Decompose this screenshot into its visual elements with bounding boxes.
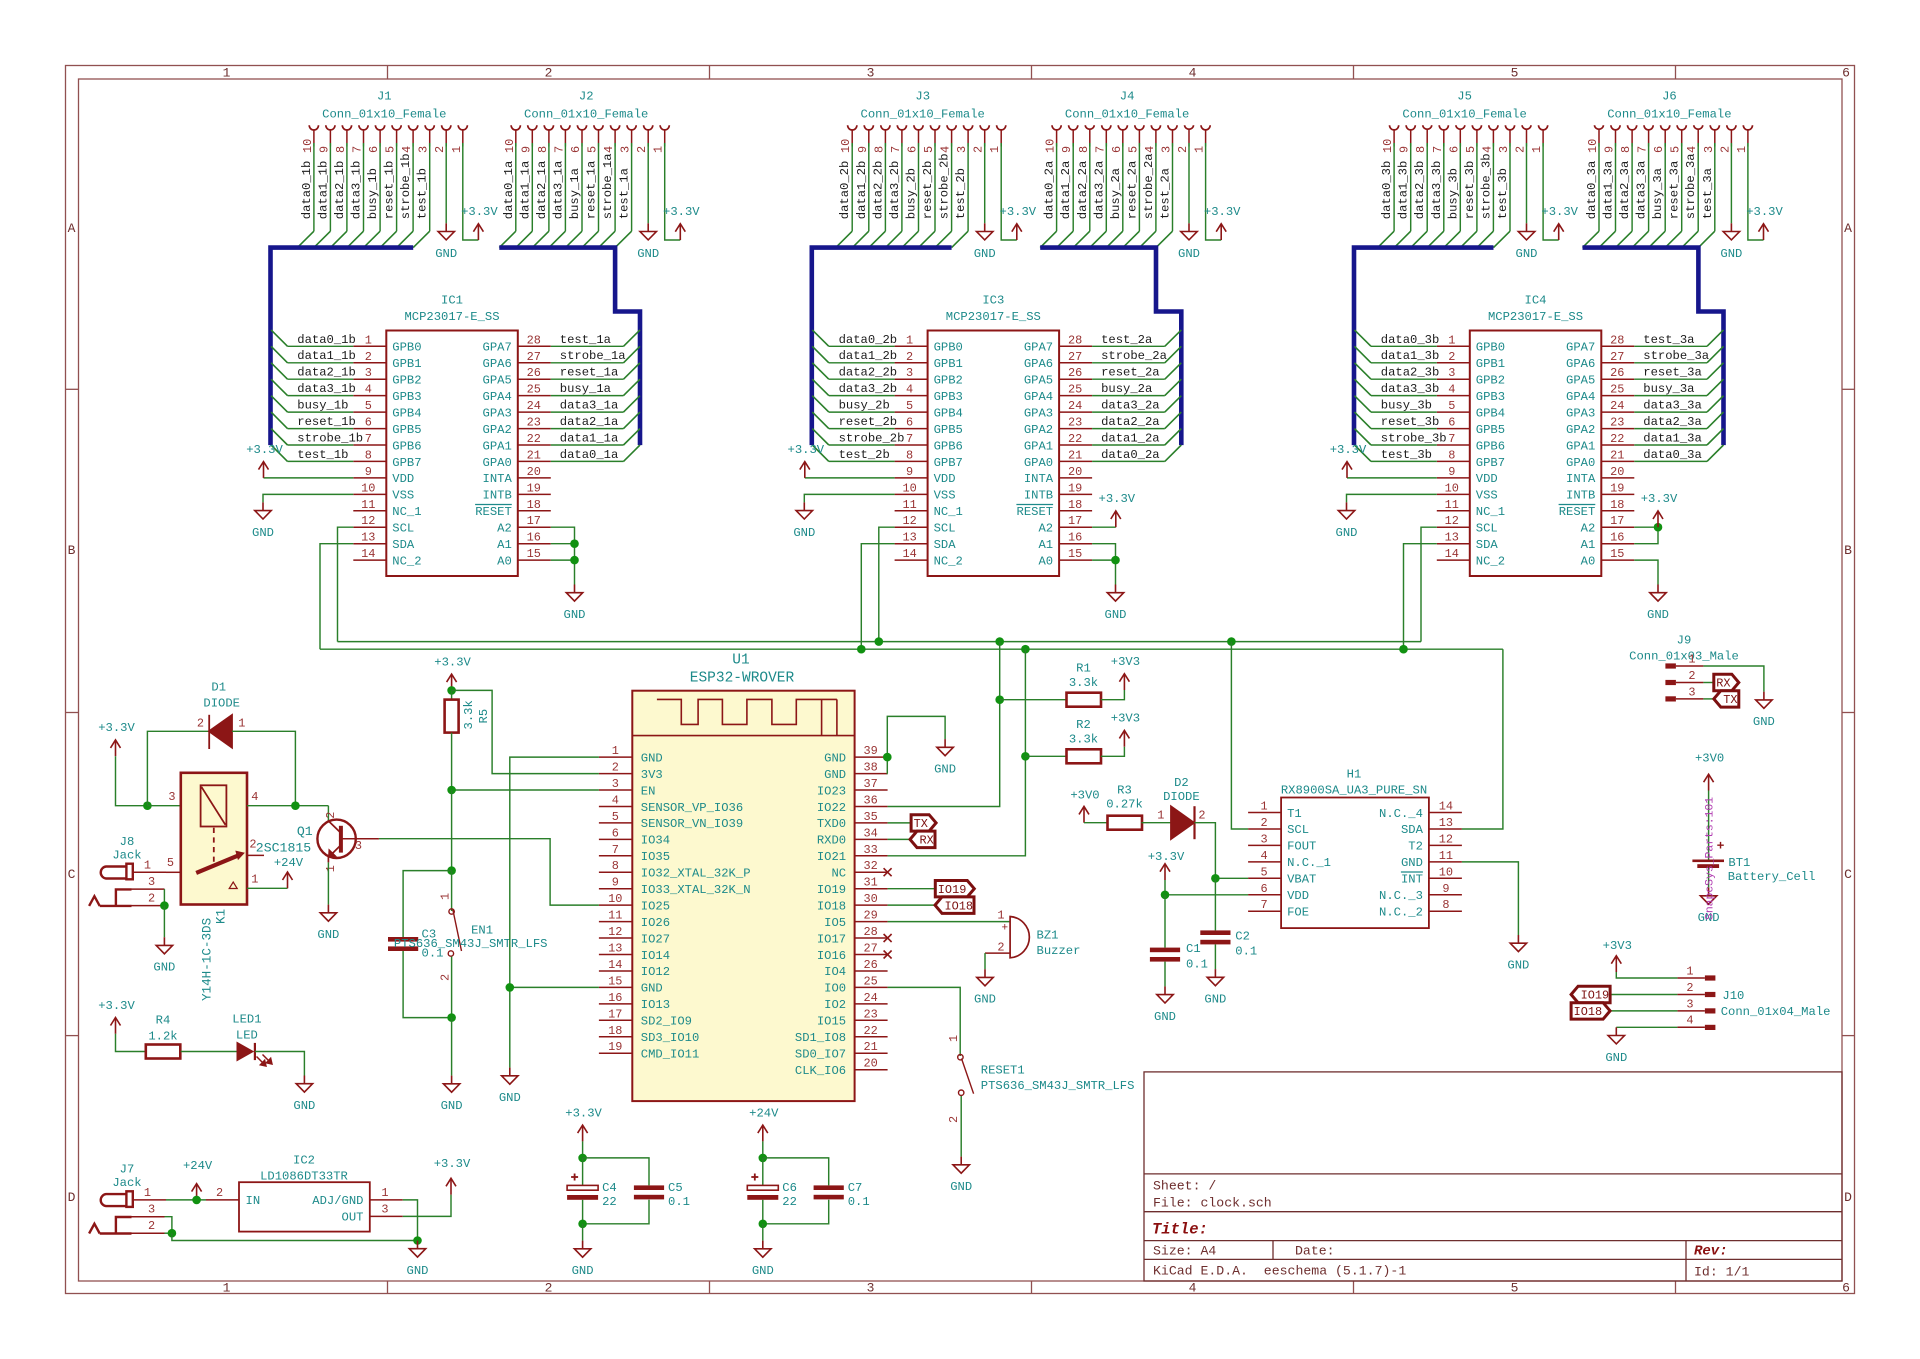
svg-text:DIODE: DIODE xyxy=(1163,790,1200,804)
wire net test_3a to IC4 pin 28 xyxy=(1634,345,1707,347)
svg-text:0.1: 0.1 xyxy=(668,1195,690,1209)
svg-text:data3_3b: data3_3b xyxy=(1430,161,1444,220)
wire J1 pin 1 to +3.3V xyxy=(463,147,479,241)
wire net reset_2a from J4 pin 5 xyxy=(1138,147,1140,232)
junction SCL at IC3 xyxy=(875,637,884,646)
svg-text:RX8900SA_UA3_PURE_SN: RX8900SA_UA3_PURE_SN xyxy=(1281,784,1427,798)
ground at IC4 A0 xyxy=(1657,585,1659,593)
svg-text:7: 7 xyxy=(612,843,619,857)
wire +24V to C6 C7 xyxy=(762,1141,764,1158)
junction SDA at IC3 xyxy=(857,645,866,654)
svg-text:0.1: 0.1 xyxy=(1186,958,1208,972)
svg-text:+3.3V: +3.3V xyxy=(246,443,283,457)
svg-text:data1_2a: data1_2a xyxy=(1101,432,1160,446)
svg-text:12: 12 xyxy=(608,925,622,939)
svg-text:11: 11 xyxy=(902,498,916,512)
svg-text:busy_1a: busy_1a xyxy=(568,168,582,219)
bus J2 to IC1 right xyxy=(499,248,640,446)
svg-text:+3.3V: +3.3V xyxy=(788,443,825,457)
wire C3 bottom to EN1 bottom node xyxy=(403,951,452,1018)
svg-text:Jack: Jack xyxy=(112,848,141,862)
svg-text:SnapcSys_Parts:101: SnapcSys_Parts:101 xyxy=(1705,797,1717,920)
svg-text:8: 8 xyxy=(1619,146,1633,153)
svg-text:2: 2 xyxy=(439,974,453,981)
svg-text:IO0: IO0 xyxy=(824,982,846,996)
junction relay pin3 node xyxy=(143,801,152,810)
svg-text:MCP23017-E_SS: MCP23017-E_SS xyxy=(946,310,1041,324)
svg-text:0.1: 0.1 xyxy=(848,1195,870,1209)
power +3.3V at H1 VDD xyxy=(1164,864,1166,880)
svg-text:data1_1b: data1_1b xyxy=(297,349,356,363)
svg-text:11: 11 xyxy=(1439,849,1453,863)
svg-text:GND: GND xyxy=(1720,247,1742,261)
svg-text:T1: T1 xyxy=(1287,807,1302,821)
wire net busy_3a to IC4 pin 25 xyxy=(1634,395,1707,397)
svg-text:9: 9 xyxy=(1448,465,1455,479)
svg-text:26: 26 xyxy=(863,958,877,972)
svg-text:reset_1b: reset_1b xyxy=(297,415,356,429)
svg-text:reset_2a: reset_2a xyxy=(1101,366,1160,380)
svg-text:+3.3V: +3.3V xyxy=(461,205,498,219)
svg-text:+3.3V: +3.3V xyxy=(1541,205,1578,219)
svg-text:GPB3: GPB3 xyxy=(1476,390,1505,404)
ground J4 xyxy=(1188,223,1190,231)
svg-text:14: 14 xyxy=(1445,547,1459,561)
svg-text:A2: A2 xyxy=(1038,522,1053,536)
svg-text:3.3k: 3.3k xyxy=(1069,733,1098,747)
svg-text:data2_3b: data2_3b xyxy=(1381,366,1440,380)
wire net data0_3a to IC4 pin 21 xyxy=(1634,460,1707,462)
svg-text:GND: GND xyxy=(793,526,815,540)
junction R1 tap on SCL drop xyxy=(995,695,1004,704)
svg-text:data3_1b: data3_1b xyxy=(350,161,364,220)
svg-text:SENSOR_VN_IO39: SENSOR_VN_IO39 xyxy=(641,817,743,831)
bus J4 to IC3 right xyxy=(1040,248,1181,446)
svg-text:GPA6: GPA6 xyxy=(483,357,512,371)
svg-text:15: 15 xyxy=(527,547,541,561)
wire D2 cathode to H1 VBAT xyxy=(1195,823,1249,879)
svg-text:36: 36 xyxy=(863,794,877,808)
svg-text:9: 9 xyxy=(856,146,870,153)
svg-text:10: 10 xyxy=(1586,139,1600,153)
svg-text:A1: A1 xyxy=(1038,538,1053,552)
wire H1 SDA up to SDA line xyxy=(1462,649,1503,829)
svg-text:VDD: VDD xyxy=(1287,889,1309,903)
svg-text:9: 9 xyxy=(1442,882,1449,896)
wire net data0_1a to IC1 pin 21 xyxy=(551,460,624,462)
wire net data1_2a to IC3 pin 22 xyxy=(1092,444,1165,446)
no-connect x marks on U1 pins 32 28 27 xyxy=(884,868,892,876)
svg-text:12: 12 xyxy=(902,514,916,528)
svg-text:GPB5: GPB5 xyxy=(392,423,421,437)
svg-text:11: 11 xyxy=(1445,498,1459,512)
wire BT1 to ground xyxy=(1708,868,1710,888)
svg-text:GPB1: GPB1 xyxy=(1476,357,1505,371)
svg-text:data3_3b: data3_3b xyxy=(1381,382,1440,396)
wire IC4 VSS to ground xyxy=(1347,494,1437,502)
svg-text:8: 8 xyxy=(1442,898,1449,912)
wire J10 pin4 to ground xyxy=(1616,1026,1677,1028)
wire VBAT node down to C2 xyxy=(1214,878,1216,930)
svg-text:C: C xyxy=(68,867,76,882)
resistor R2 3.3k pullup xyxy=(1025,755,1066,757)
svg-text:28: 28 xyxy=(1610,333,1624,347)
svg-text:N.C._1: N.C._1 xyxy=(1287,856,1331,870)
wire net test_1a from J2 pin 3 xyxy=(631,147,633,232)
svg-text:4: 4 xyxy=(365,383,372,397)
wire I2C SDA net horizontal xyxy=(320,648,1503,650)
svg-text:A2: A2 xyxy=(1581,522,1596,536)
svg-text:GPA7: GPA7 xyxy=(1566,341,1595,355)
svg-text:3: 3 xyxy=(612,777,619,791)
svg-text:GPB7: GPB7 xyxy=(934,456,963,470)
svg-text:strobe_3b: strobe_3b xyxy=(1479,153,1493,219)
svg-text:9: 9 xyxy=(519,146,533,153)
svg-text:Conn_01x10_Female: Conn_01x10_Female xyxy=(1607,108,1731,122)
svg-text:data1_3b: data1_3b xyxy=(1381,349,1440,363)
svg-text:1: 1 xyxy=(997,909,1004,923)
svg-text:SDA: SDA xyxy=(1476,538,1499,552)
wire net data2_3a from J6 pin 8 xyxy=(1631,147,1633,232)
global label IO19 at U1 pin31 xyxy=(888,888,936,890)
svg-text:2: 2 xyxy=(1514,146,1528,153)
svg-text:2: 2 xyxy=(1176,146,1190,153)
svg-text:GND: GND xyxy=(1516,247,1538,261)
wire relay pin3 node to relay xyxy=(147,805,180,807)
svg-text:GPA3: GPA3 xyxy=(1566,406,1595,420)
wire +3.3V to C4 C5 xyxy=(582,1141,584,1158)
ground for U1 pins 39 38 xyxy=(944,739,946,747)
svg-text:data2_2b: data2_2b xyxy=(839,366,898,380)
svg-text:33: 33 xyxy=(863,843,877,857)
power +3.3V at IC3 VDD xyxy=(804,462,806,478)
svg-text:Conn_01x04_Male: Conn_01x04_Male xyxy=(1721,1005,1831,1019)
svg-text:data0_1b: data0_1b xyxy=(297,333,356,347)
svg-text:2: 2 xyxy=(365,350,372,364)
wire net data1_1a to IC1 pin 22 xyxy=(551,444,624,446)
svg-text:3: 3 xyxy=(1497,146,1511,153)
junction SCL at U1 IO22 xyxy=(995,637,1004,646)
svg-text:7: 7 xyxy=(1093,146,1107,153)
wire +3V3 to J10 pin1 xyxy=(1616,972,1677,978)
resistor R3 0.27k xyxy=(1108,816,1143,830)
svg-text:13: 13 xyxy=(361,531,375,545)
wire net test_3b from J5 pin 3 xyxy=(1509,147,1511,232)
svg-text:GPB0: GPB0 xyxy=(1476,341,1505,355)
power +24V at C6 xyxy=(762,1125,764,1141)
svg-text:NC_1: NC_1 xyxy=(392,505,421,519)
svg-text:GPA7: GPA7 xyxy=(483,341,512,355)
svg-text:test_3b: test_3b xyxy=(1381,448,1432,462)
svg-text:GPA4: GPA4 xyxy=(1566,390,1595,404)
svg-text:RXD0: RXD0 xyxy=(817,834,846,848)
svg-text:GPA1: GPA1 xyxy=(1024,439,1053,453)
wire IC3 SCL down to I2C bus xyxy=(879,527,895,641)
ground below EN1 xyxy=(451,1076,453,1084)
svg-text:B: B xyxy=(68,543,76,558)
svg-text:VSS: VSS xyxy=(1476,489,1498,503)
wire J3 pin 2 to ground xyxy=(984,147,986,224)
svg-text:Size: A4: Size: A4 xyxy=(1153,1244,1216,1259)
svg-text:2: 2 xyxy=(635,146,649,153)
wire net data1_1b to IC1 pin 2 xyxy=(288,362,354,364)
svg-text:C: C xyxy=(1844,867,1852,882)
svg-text:GND: GND xyxy=(641,751,663,765)
wire SCL line down to H1 SCL xyxy=(1231,642,1248,829)
svg-text:1: 1 xyxy=(144,858,151,872)
svg-text:GND: GND xyxy=(499,1091,521,1105)
svg-text:TX: TX xyxy=(914,817,928,831)
svg-text:Conn_01x10_Female: Conn_01x10_Female xyxy=(1065,108,1189,122)
svg-text:Rev:: Rev: xyxy=(1694,1244,1728,1260)
svg-text:GPA1: GPA1 xyxy=(1566,439,1595,453)
svg-text:GPA5: GPA5 xyxy=(1024,374,1053,388)
svg-text:22: 22 xyxy=(863,1024,877,1038)
svg-text:GND: GND xyxy=(1336,526,1358,540)
svg-text:data2_3a: data2_3a xyxy=(1618,161,1632,220)
svg-text:1: 1 xyxy=(1688,652,1695,666)
svg-text:data1_3a: data1_3a xyxy=(1643,432,1702,446)
switch EN1 PTS636 xyxy=(451,871,453,911)
svg-text:20: 20 xyxy=(1068,465,1082,479)
svg-text:22: 22 xyxy=(602,1195,617,1209)
svg-text:21: 21 xyxy=(1610,448,1624,462)
svg-text:23: 23 xyxy=(1610,416,1624,430)
svg-text:8: 8 xyxy=(334,146,348,153)
svg-text:D1: D1 xyxy=(211,681,226,695)
power +3.3V at IC4 VDD xyxy=(1346,462,1348,478)
ground at Q1 xyxy=(327,905,329,913)
wire net data0_3b to IC4 pin 1 xyxy=(1371,345,1437,347)
svg-text:IO16: IO16 xyxy=(817,949,846,963)
svg-text:GPB0: GPB0 xyxy=(934,341,963,355)
global label TX at J9 pin3 xyxy=(1703,698,1713,700)
capacitor C2 0.1 xyxy=(1200,930,1230,935)
svg-text:N.C._4: N.C._4 xyxy=(1379,807,1423,821)
wire J7 pins 3 2 to ground rail xyxy=(165,1217,172,1234)
svg-text:GPA0: GPA0 xyxy=(483,456,512,470)
capacitor C7 0.1 xyxy=(814,1185,844,1190)
svg-text:27: 27 xyxy=(1068,350,1082,364)
svg-text:VDD: VDD xyxy=(1476,472,1498,486)
svg-text:25: 25 xyxy=(1610,383,1624,397)
svg-text:GND: GND xyxy=(950,1180,972,1194)
global label RX at J9 pin2 xyxy=(1703,682,1713,684)
svg-text:GND: GND xyxy=(572,1264,594,1278)
svg-text:IO17: IO17 xyxy=(817,932,846,946)
svg-text:2: 2 xyxy=(1261,816,1268,830)
svg-text:1: 1 xyxy=(439,893,453,900)
svg-text:24: 24 xyxy=(1068,399,1082,413)
svg-text:15: 15 xyxy=(1610,547,1624,561)
svg-text:test_2a: test_2a xyxy=(1159,168,1173,219)
svg-text:7: 7 xyxy=(1636,146,1650,153)
svg-text:strobe_2b: strobe_2b xyxy=(839,432,905,446)
power +3.3V at J4 xyxy=(1220,224,1222,240)
svg-text:busy_2a: busy_2a xyxy=(1109,168,1123,219)
svg-text:GPB7: GPB7 xyxy=(392,456,421,470)
wire net data2_2a to IC3 pin 23 xyxy=(1092,428,1165,430)
svg-text:SDA: SDA xyxy=(1401,823,1424,837)
wire net data2_3b from J5 pin 8 xyxy=(1426,147,1428,232)
wire net data0_2b from J3 pin 10 xyxy=(851,147,853,232)
wire relay pin4 to Q1 collector xyxy=(247,805,328,807)
svg-text:3: 3 xyxy=(381,1203,388,1217)
svg-text:A: A xyxy=(1844,221,1852,236)
svg-text:reset_1a: reset_1a xyxy=(560,366,619,380)
svg-text:data0_2a: data0_2a xyxy=(1043,161,1057,220)
svg-text:6: 6 xyxy=(1261,882,1268,896)
svg-text:J10: J10 xyxy=(1722,989,1744,1003)
svg-text:GPB0: GPB0 xyxy=(392,341,421,355)
svg-text:+3V3: +3V3 xyxy=(1111,655,1140,669)
wire net data3_3b to IC4 pin 4 xyxy=(1371,395,1437,397)
wire net strobe_3b from J5 pin 4 xyxy=(1492,147,1494,232)
svg-text:IC3: IC3 xyxy=(982,293,1004,307)
svg-text:3: 3 xyxy=(1160,146,1174,153)
svg-text:TX: TX xyxy=(1723,693,1737,707)
svg-text:A0: A0 xyxy=(497,554,512,568)
svg-text:strobe_1a: strobe_1a xyxy=(601,153,615,219)
svg-text:9: 9 xyxy=(317,146,331,153)
wire net data3_3b from J5 pin 7 xyxy=(1443,147,1445,232)
svg-text:C6: C6 xyxy=(782,1181,797,1195)
svg-text:data1_2b: data1_2b xyxy=(839,349,898,363)
junction IC3 A0 xyxy=(1111,556,1120,565)
power +3.3V feeding R5 and U1 3V3 xyxy=(451,674,453,690)
wire net data3_1b to IC1 pin 4 xyxy=(288,395,354,397)
wire net busy_3a from J6 pin 6 xyxy=(1664,147,1666,232)
svg-text:test_1a: test_1a xyxy=(560,333,611,347)
junction SDA at U1 IO21 xyxy=(1021,645,1030,654)
wire net data1_3a to IC4 pin 22 xyxy=(1634,444,1707,446)
svg-text:1: 1 xyxy=(365,333,372,347)
junction SCL at H1 xyxy=(1227,637,1236,646)
ground J6 xyxy=(1730,223,1732,231)
svg-text:data2_3a: data2_3a xyxy=(1643,415,1702,429)
svg-text:30: 30 xyxy=(863,892,877,906)
svg-text:data3_2a: data3_2a xyxy=(1101,399,1160,413)
svg-text:busy_2a: busy_2a xyxy=(1101,382,1152,396)
svg-text:strobe_3b: strobe_3b xyxy=(1381,432,1447,446)
svg-text:7: 7 xyxy=(1261,898,1268,912)
svg-text:3: 3 xyxy=(619,146,633,153)
svg-text:1: 1 xyxy=(1193,146,1207,153)
svg-text:37: 37 xyxy=(863,777,877,791)
wire R5 bottom to U1 EN xyxy=(451,733,453,790)
svg-text:INTA: INTA xyxy=(483,472,513,486)
svg-text:IO18: IO18 xyxy=(1574,1005,1603,1019)
svg-text:8: 8 xyxy=(1077,146,1091,153)
svg-text:GND: GND xyxy=(752,1264,774,1278)
svg-text:2: 2 xyxy=(1198,809,1205,823)
svg-text:strobe_3a: strobe_3a xyxy=(1684,153,1698,219)
svg-text:IO18: IO18 xyxy=(817,899,846,913)
wire +3.3V to U1 pin2 3V3 xyxy=(452,690,599,773)
svg-text:2: 2 xyxy=(148,1219,155,1233)
svg-text:GND: GND xyxy=(824,751,846,765)
svg-text:+3.3V: +3.3V xyxy=(1148,850,1185,864)
svg-text:13: 13 xyxy=(1445,531,1459,545)
svg-text:5: 5 xyxy=(365,399,372,413)
svg-text:27: 27 xyxy=(1610,350,1624,364)
wire net strobe_1a to IC1 pin 27 xyxy=(551,362,624,364)
svg-text:reset_3b: reset_3b xyxy=(1381,415,1440,429)
svg-text:busy_2b: busy_2b xyxy=(905,168,919,219)
svg-text:GPB2: GPB2 xyxy=(934,374,963,388)
svg-text:VDD: VDD xyxy=(392,472,414,486)
junction IC1 A0 xyxy=(570,556,579,565)
svg-text:15: 15 xyxy=(608,974,622,988)
svg-text:2: 2 xyxy=(433,146,447,153)
svg-text:1: 1 xyxy=(381,1186,388,1200)
svg-text:data0_3b: data0_3b xyxy=(1381,333,1440,347)
wire net strobe_1b from J1 pin 4 xyxy=(412,147,414,232)
svg-text:A2: A2 xyxy=(497,522,512,536)
svg-text:5: 5 xyxy=(1511,66,1519,81)
svg-text:strobe_1b: strobe_1b xyxy=(399,153,413,219)
svg-text:data1_3a: data1_3a xyxy=(1602,161,1616,220)
svg-text:8: 8 xyxy=(365,448,372,462)
svg-text:SD3_IO10: SD3_IO10 xyxy=(641,1031,700,1045)
svg-text:19: 19 xyxy=(608,1040,622,1054)
junction EN1 top node xyxy=(447,866,456,875)
svg-text:PTS636_SM43J_SMTR_LFS: PTS636_SM43J_SMTR_LFS xyxy=(981,1079,1135,1093)
wire net test_1a to IC1 pin 28 xyxy=(551,345,624,347)
wire IC4 SDA down to I2C bus xyxy=(1404,544,1437,650)
wire J8 pins 3 2 to ground xyxy=(163,889,165,906)
wire net busy_1a to IC1 pin 25 xyxy=(551,395,624,397)
svg-text:8: 8 xyxy=(1448,448,1455,462)
svg-text:2: 2 xyxy=(612,761,619,775)
svg-text:IC2: IC2 xyxy=(293,1154,315,1168)
svg-text:1: 1 xyxy=(988,146,1002,153)
svg-text:23: 23 xyxy=(863,1007,877,1021)
svg-text:5: 5 xyxy=(1511,1280,1519,1295)
ground J5 xyxy=(1526,223,1528,231)
svg-text:9: 9 xyxy=(906,465,913,479)
svg-text:strobe_1b: strobe_1b xyxy=(297,432,363,446)
svg-text:A0: A0 xyxy=(1038,554,1053,568)
junction relay pin4 node xyxy=(291,801,300,810)
wire net busy_2b from J3 pin 6 xyxy=(918,147,920,232)
svg-text:+3V0: +3V0 xyxy=(1695,752,1724,766)
svg-text:16: 16 xyxy=(608,991,622,1005)
svg-text:Title:: Title: xyxy=(1152,1221,1208,1239)
wire net data1_2b to IC3 pin 2 xyxy=(829,362,895,364)
svg-text:4: 4 xyxy=(1480,146,1494,153)
power +3.3V at IC4 A2 xyxy=(1657,511,1659,527)
wire net test_1b from J1 pin 3 xyxy=(429,147,431,232)
svg-text:2: 2 xyxy=(216,1186,223,1200)
svg-text:busy_2b: busy_2b xyxy=(839,399,890,413)
wire net strobe_1b to IC1 pin 7 xyxy=(288,444,354,446)
svg-text:GPB6: GPB6 xyxy=(934,439,963,453)
svg-text:1: 1 xyxy=(144,1186,151,1200)
wire net data2_2a from J4 pin 8 xyxy=(1089,147,1091,232)
wire net data0_1a from J2 pin 10 xyxy=(515,147,517,232)
svg-text:IN: IN xyxy=(246,1194,261,1208)
junction EN1 bottom node xyxy=(447,1013,456,1022)
ground at IC1 VSS xyxy=(262,502,264,510)
wire net busy_1a from J2 pin 6 xyxy=(581,147,583,232)
wire net data3_1a from J2 pin 7 xyxy=(564,147,566,232)
svg-text:22: 22 xyxy=(1610,432,1624,446)
svg-text:IO22: IO22 xyxy=(817,801,846,815)
junction R2 tap on SDA drop xyxy=(1021,752,1030,761)
svg-text:J9: J9 xyxy=(1677,634,1692,648)
svg-text:GPA6: GPA6 xyxy=(1024,357,1053,371)
